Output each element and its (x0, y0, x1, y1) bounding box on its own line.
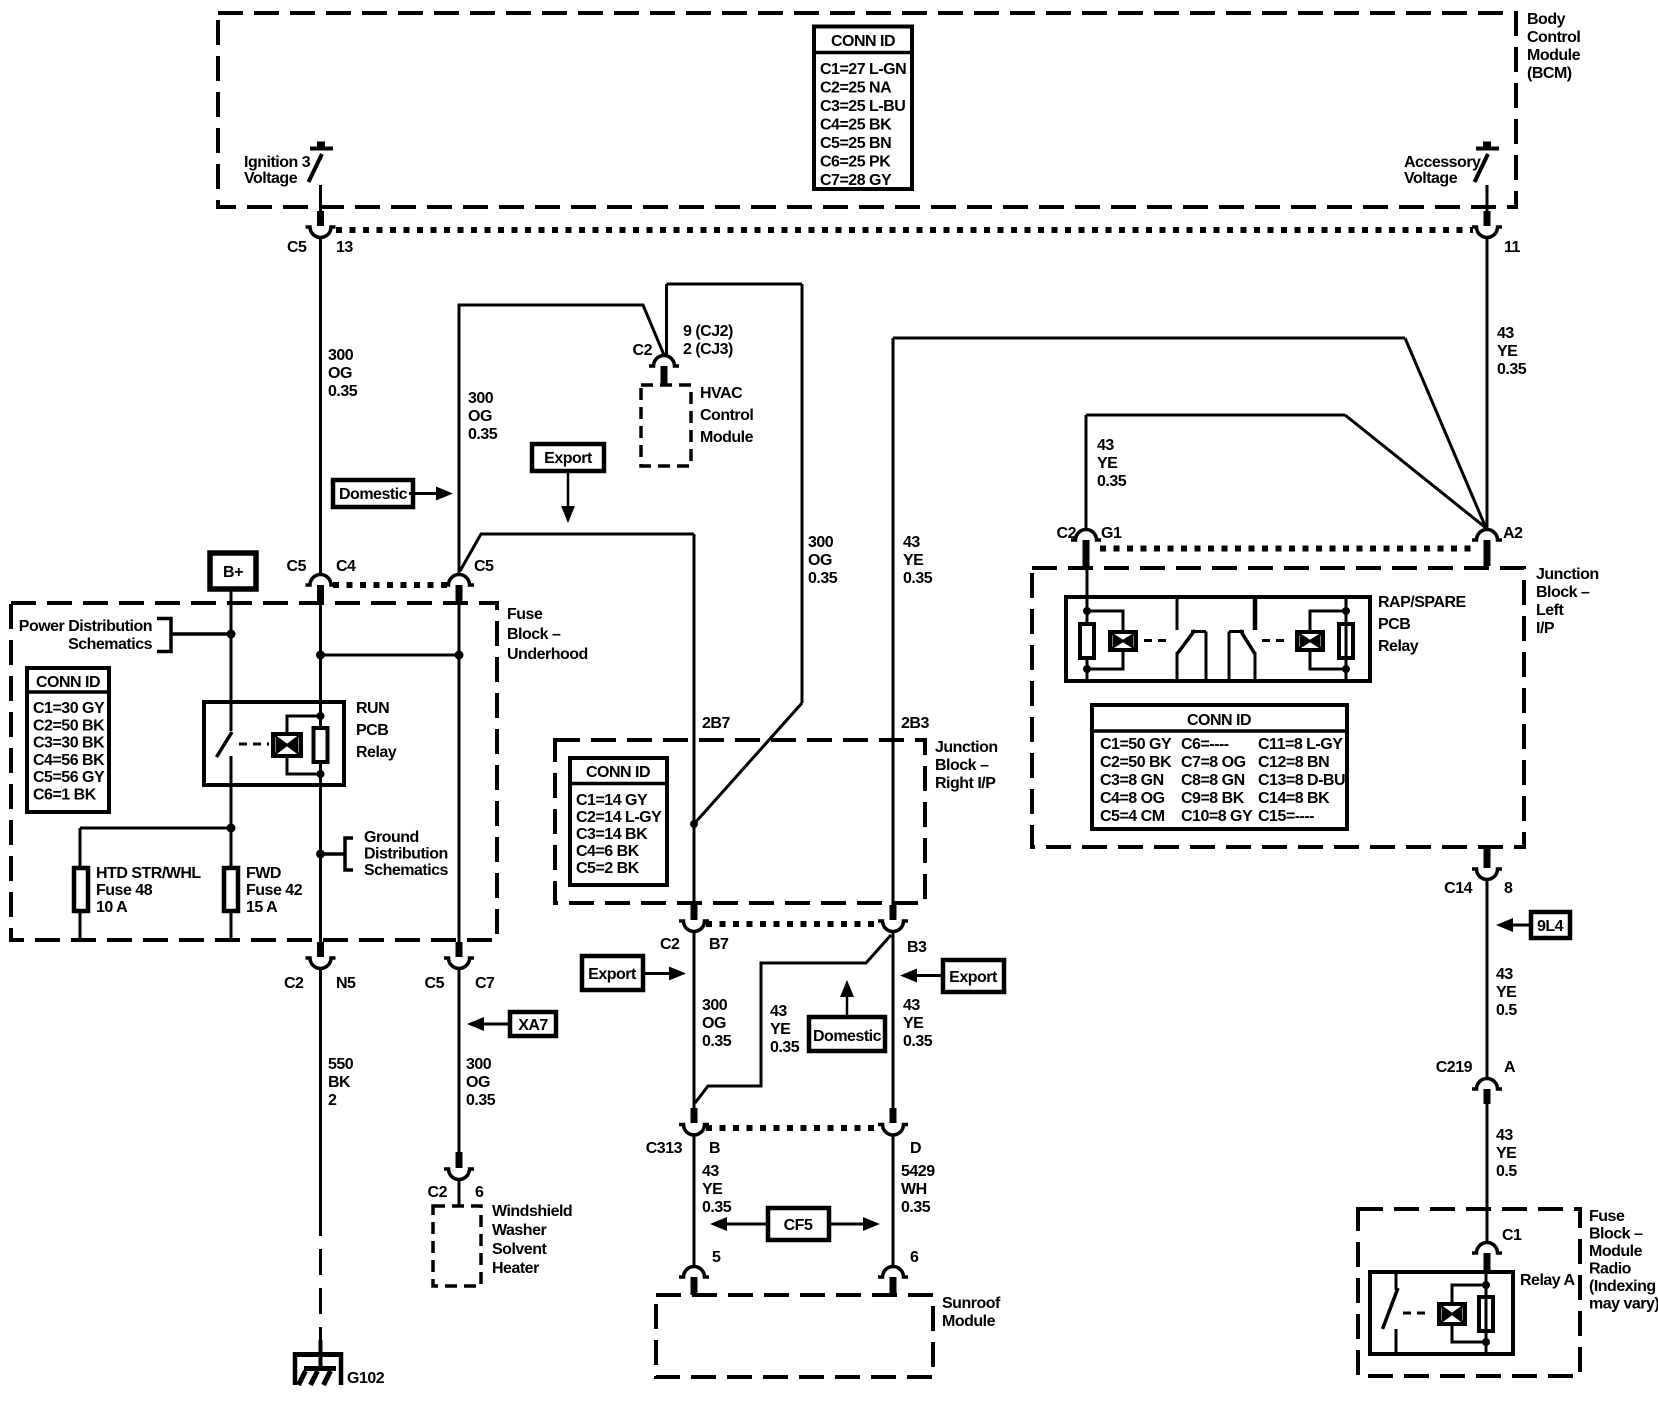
svg-text:A: A (1504, 1059, 1516, 1076)
svg-text:0.5: 0.5 (1496, 1002, 1517, 1019)
svg-text:0.35: 0.35 (903, 1033, 933, 1050)
svg-text:C5=2 BK: C5=2 BK (576, 860, 640, 877)
svg-text:FWD: FWD (246, 865, 281, 882)
svg-text:C13=8 D-BU: C13=8 D-BU (1258, 772, 1345, 789)
svg-text:RUN: RUN (356, 700, 389, 717)
svg-text:43: 43 (1097, 437, 1114, 454)
svg-text:C7: C7 (475, 975, 495, 992)
svg-text:15 A: 15 A (246, 899, 278, 916)
svg-text:Fuse: Fuse (507, 606, 543, 623)
svg-text:Relay: Relay (356, 744, 397, 761)
svg-text:PCB: PCB (356, 722, 388, 739)
svg-text:Ground: Ground (364, 829, 419, 846)
svg-text:OG: OG (466, 1074, 490, 1091)
svg-text:YE: YE (903, 552, 924, 569)
svg-text:OG: OG (808, 552, 832, 569)
svg-text:C219: C219 (1436, 1059, 1473, 1076)
svg-text:Washer: Washer (492, 1222, 546, 1239)
svg-text:300: 300 (808, 534, 834, 551)
svg-text:Block –: Block – (935, 757, 989, 774)
svg-text:Sunroof: Sunroof (942, 1295, 1001, 1312)
svg-text:Junction: Junction (1536, 566, 1599, 583)
svg-text:C4=6 BK: C4=6 BK (576, 843, 640, 860)
svg-text:YE: YE (1497, 343, 1518, 360)
svg-text:Fuse: Fuse (1589, 1208, 1625, 1225)
svg-text:C313: C313 (646, 1140, 683, 1157)
svg-text:43: 43 (770, 1003, 787, 1020)
svg-text:Voltage: Voltage (244, 170, 298, 187)
svg-text:YE: YE (1496, 984, 1517, 1001)
svg-text:C2=50 BK: C2=50 BK (1100, 754, 1172, 771)
svg-text:43: 43 (1496, 1127, 1513, 1144)
svg-text:C7=8 OG: C7=8 OG (1181, 754, 1246, 771)
svg-text:B+: B+ (223, 564, 243, 581)
svg-text:CONN ID: CONN ID (586, 764, 650, 781)
svg-text:RAP/SPARE: RAP/SPARE (1378, 594, 1466, 611)
svg-text:0.35: 0.35 (1097, 473, 1127, 490)
svg-text:C15=----: C15=---- (1258, 808, 1314, 825)
svg-text:HVAC: HVAC (700, 385, 743, 402)
svg-text:Accessory: Accessory (1404, 154, 1481, 171)
svg-text:C6=25 PK: C6=25 PK (820, 154, 891, 171)
svg-text:Export: Export (949, 969, 998, 986)
svg-text:C14: C14 (1444, 880, 1472, 897)
svg-text:Block –: Block – (507, 626, 561, 643)
svg-text:550: 550 (328, 1056, 354, 1073)
svg-text:C7=28 GY: C7=28 GY (820, 172, 892, 189)
svg-text:D: D (910, 1140, 921, 1157)
svg-text:I/P: I/P (1536, 620, 1555, 637)
svg-text:C4=56 BK: C4=56 BK (33, 752, 105, 769)
svg-text:C8=8 GN: C8=8 GN (1181, 772, 1245, 789)
svg-text:Control: Control (700, 407, 753, 424)
svg-text:YE: YE (903, 1015, 924, 1032)
svg-text:C5=25 BN: C5=25 BN (820, 135, 891, 152)
svg-text:Domestic: Domestic (339, 486, 408, 503)
svg-text:OG: OG (468, 408, 492, 425)
svg-text:Underhood: Underhood (507, 646, 588, 663)
svg-text:Schematics: Schematics (364, 862, 449, 879)
svg-text:300: 300 (468, 390, 494, 407)
svg-text:0.35: 0.35 (808, 570, 838, 587)
svg-text:Export: Export (544, 450, 593, 467)
svg-text:0.35: 0.35 (466, 1092, 496, 1109)
svg-text:C6=1 BK: C6=1 BK (33, 787, 97, 804)
svg-text:CONN ID: CONN ID (36, 674, 100, 691)
svg-text:300: 300 (466, 1056, 492, 1073)
svg-text:9L4: 9L4 (1537, 918, 1564, 935)
svg-text:CONN ID: CONN ID (1187, 712, 1251, 729)
svg-text:0.35: 0.35 (468, 426, 498, 443)
svg-text:(BCM): (BCM) (1527, 65, 1572, 82)
svg-text:13: 13 (336, 239, 353, 256)
svg-text:C4=8 OG: C4=8 OG (1100, 790, 1165, 807)
svg-text:Domestic: Domestic (813, 1028, 882, 1045)
svg-text:A2: A2 (1503, 525, 1523, 542)
svg-text:YE: YE (1097, 455, 1118, 472)
svg-text:Body: Body (1527, 11, 1566, 28)
svg-text:XA7: XA7 (518, 1017, 548, 1034)
svg-text:C3=8 GN: C3=8 GN (1100, 772, 1164, 789)
svg-text:B7: B7 (709, 936, 729, 953)
svg-text:Left: Left (1536, 602, 1565, 619)
svg-text:N5: N5 (336, 975, 356, 992)
svg-text:Fuse 42: Fuse 42 (246, 882, 303, 899)
svg-text:Module: Module (700, 429, 754, 446)
svg-text:Schematics: Schematics (68, 636, 153, 653)
svg-text:OG: OG (328, 365, 352, 382)
svg-text:Junction: Junction (935, 739, 998, 756)
svg-text:C5=4 CM: C5=4 CM (1100, 808, 1165, 825)
svg-text:0.5: 0.5 (1496, 1163, 1517, 1180)
svg-text:43: 43 (1497, 325, 1514, 342)
svg-text:2: 2 (328, 1092, 337, 1109)
svg-text:0.35: 0.35 (702, 1199, 732, 1216)
svg-text:300: 300 (702, 997, 728, 1014)
svg-text:C6=----: C6=---- (1181, 736, 1229, 753)
svg-text:Windshield: Windshield (492, 1203, 572, 1220)
svg-text:C1=27 L-GN: C1=27 L-GN (820, 61, 906, 78)
svg-text:C5: C5 (425, 975, 445, 992)
svg-text:may vary): may vary) (1589, 1296, 1658, 1313)
svg-text:Ignition 3: Ignition 3 (244, 154, 311, 171)
svg-text:C9=8 BK: C9=8 BK (1181, 790, 1245, 807)
svg-text:C3=25 L-BU: C3=25 L-BU (820, 98, 905, 115)
svg-text:C5: C5 (287, 558, 307, 575)
svg-text:G102: G102 (347, 1370, 385, 1387)
svg-text:9 (CJ2): 9 (CJ2) (683, 323, 733, 340)
svg-text:6: 6 (910, 1249, 919, 1266)
svg-text:CONN ID: CONN ID (831, 33, 895, 50)
svg-text:0.35: 0.35 (328, 383, 358, 400)
svg-text:BK: BK (328, 1074, 351, 1091)
svg-text:C4=25 BK: C4=25 BK (820, 117, 892, 134)
svg-text:Module: Module (942, 1313, 996, 1330)
svg-text:Relay: Relay (1378, 638, 1419, 655)
svg-text:(Indexing: (Indexing (1589, 1278, 1656, 1295)
svg-text:Voltage: Voltage (1404, 170, 1458, 187)
svg-text:Export: Export (588, 966, 637, 983)
svg-text:Block –: Block – (1536, 584, 1590, 601)
svg-text:43: 43 (903, 534, 920, 551)
svg-text:C11=8 L-GY: C11=8 L-GY (1258, 736, 1343, 753)
svg-text:0.35: 0.35 (1497, 361, 1527, 378)
svg-text:C1=50 GY: C1=50 GY (1100, 736, 1172, 753)
svg-text:C14=8 BK: C14=8 BK (1258, 790, 1330, 807)
svg-text:YE: YE (702, 1181, 723, 1198)
svg-text:C1: C1 (1502, 1227, 1522, 1244)
svg-text:Right I/P: Right I/P (935, 775, 996, 792)
svg-text:Fuse 48: Fuse 48 (96, 882, 153, 899)
svg-text:Block –: Block – (1589, 1226, 1643, 1243)
svg-text:11: 11 (1504, 239, 1521, 256)
svg-text:5429: 5429 (901, 1163, 935, 1180)
svg-text:Heater: Heater (492, 1260, 539, 1277)
svg-text:6: 6 (475, 1184, 484, 1201)
svg-text:Solvent: Solvent (492, 1241, 547, 1258)
svg-text:Module: Module (1589, 1243, 1643, 1260)
svg-text:2B7: 2B7 (702, 715, 730, 732)
svg-text:B: B (709, 1140, 720, 1157)
svg-text:WH: WH (901, 1181, 927, 1198)
svg-text:C2: C2 (1057, 525, 1077, 542)
svg-text:B3: B3 (907, 939, 927, 956)
svg-text:2 (CJ3): 2 (CJ3) (683, 341, 733, 358)
svg-text:Distribution: Distribution (364, 846, 448, 863)
svg-text:YE: YE (1496, 1145, 1517, 1162)
svg-text:C2: C2 (284, 975, 304, 992)
svg-text:C1=14 GY: C1=14 GY (576, 792, 648, 809)
svg-text:C5: C5 (287, 239, 307, 256)
svg-text:300: 300 (328, 347, 354, 364)
svg-text:C12=8 BN: C12=8 BN (1258, 754, 1329, 771)
svg-text:43: 43 (1496, 966, 1513, 983)
svg-text:C2=50 BK: C2=50 BK (33, 717, 105, 734)
svg-text:G1: G1 (1101, 525, 1122, 542)
svg-text:C3=30 BK: C3=30 BK (33, 735, 105, 752)
svg-text:43: 43 (903, 997, 920, 1014)
svg-text:C5: C5 (474, 558, 494, 575)
svg-text:Relay A: Relay A (1520, 1272, 1576, 1289)
svg-text:Power Distribution: Power Distribution (19, 618, 152, 635)
svg-text:5: 5 (712, 1249, 721, 1266)
svg-text:C3=14 BK: C3=14 BK (576, 826, 648, 843)
svg-text:Radio: Radio (1589, 1261, 1632, 1278)
svg-text:C2: C2 (660, 936, 680, 953)
svg-text:C2=25 NA: C2=25 NA (820, 80, 892, 97)
svg-text:PCB: PCB (1378, 616, 1410, 633)
svg-text:0.35: 0.35 (702, 1033, 732, 1050)
svg-text:Control: Control (1527, 29, 1580, 46)
svg-text:0.35: 0.35 (901, 1199, 931, 1216)
svg-text:OG: OG (702, 1015, 726, 1032)
svg-text:CF5: CF5 (784, 1217, 813, 1234)
svg-text:YE: YE (770, 1021, 791, 1038)
svg-text:C2: C2 (633, 342, 653, 359)
svg-text:C10=8 GY: C10=8 GY (1181, 808, 1253, 825)
svg-text:Module: Module (1527, 47, 1581, 64)
svg-text:0.35: 0.35 (903, 570, 933, 587)
svg-text:8: 8 (1504, 880, 1513, 897)
svg-text:HTD STR/WHL: HTD STR/WHL (96, 865, 201, 882)
svg-text:0.35: 0.35 (770, 1039, 800, 1056)
svg-text:C1=30 GY: C1=30 GY (33, 700, 105, 717)
svg-text:43: 43 (702, 1163, 719, 1180)
svg-text:2B3: 2B3 (901, 715, 929, 732)
svg-text:C2: C2 (428, 1184, 448, 1201)
svg-text:C2=14 L-GY: C2=14 L-GY (576, 809, 662, 826)
svg-text:C4: C4 (336, 558, 356, 575)
svg-text:10 A: 10 A (96, 899, 128, 916)
svg-text:C5=56 GY: C5=56 GY (33, 769, 105, 786)
